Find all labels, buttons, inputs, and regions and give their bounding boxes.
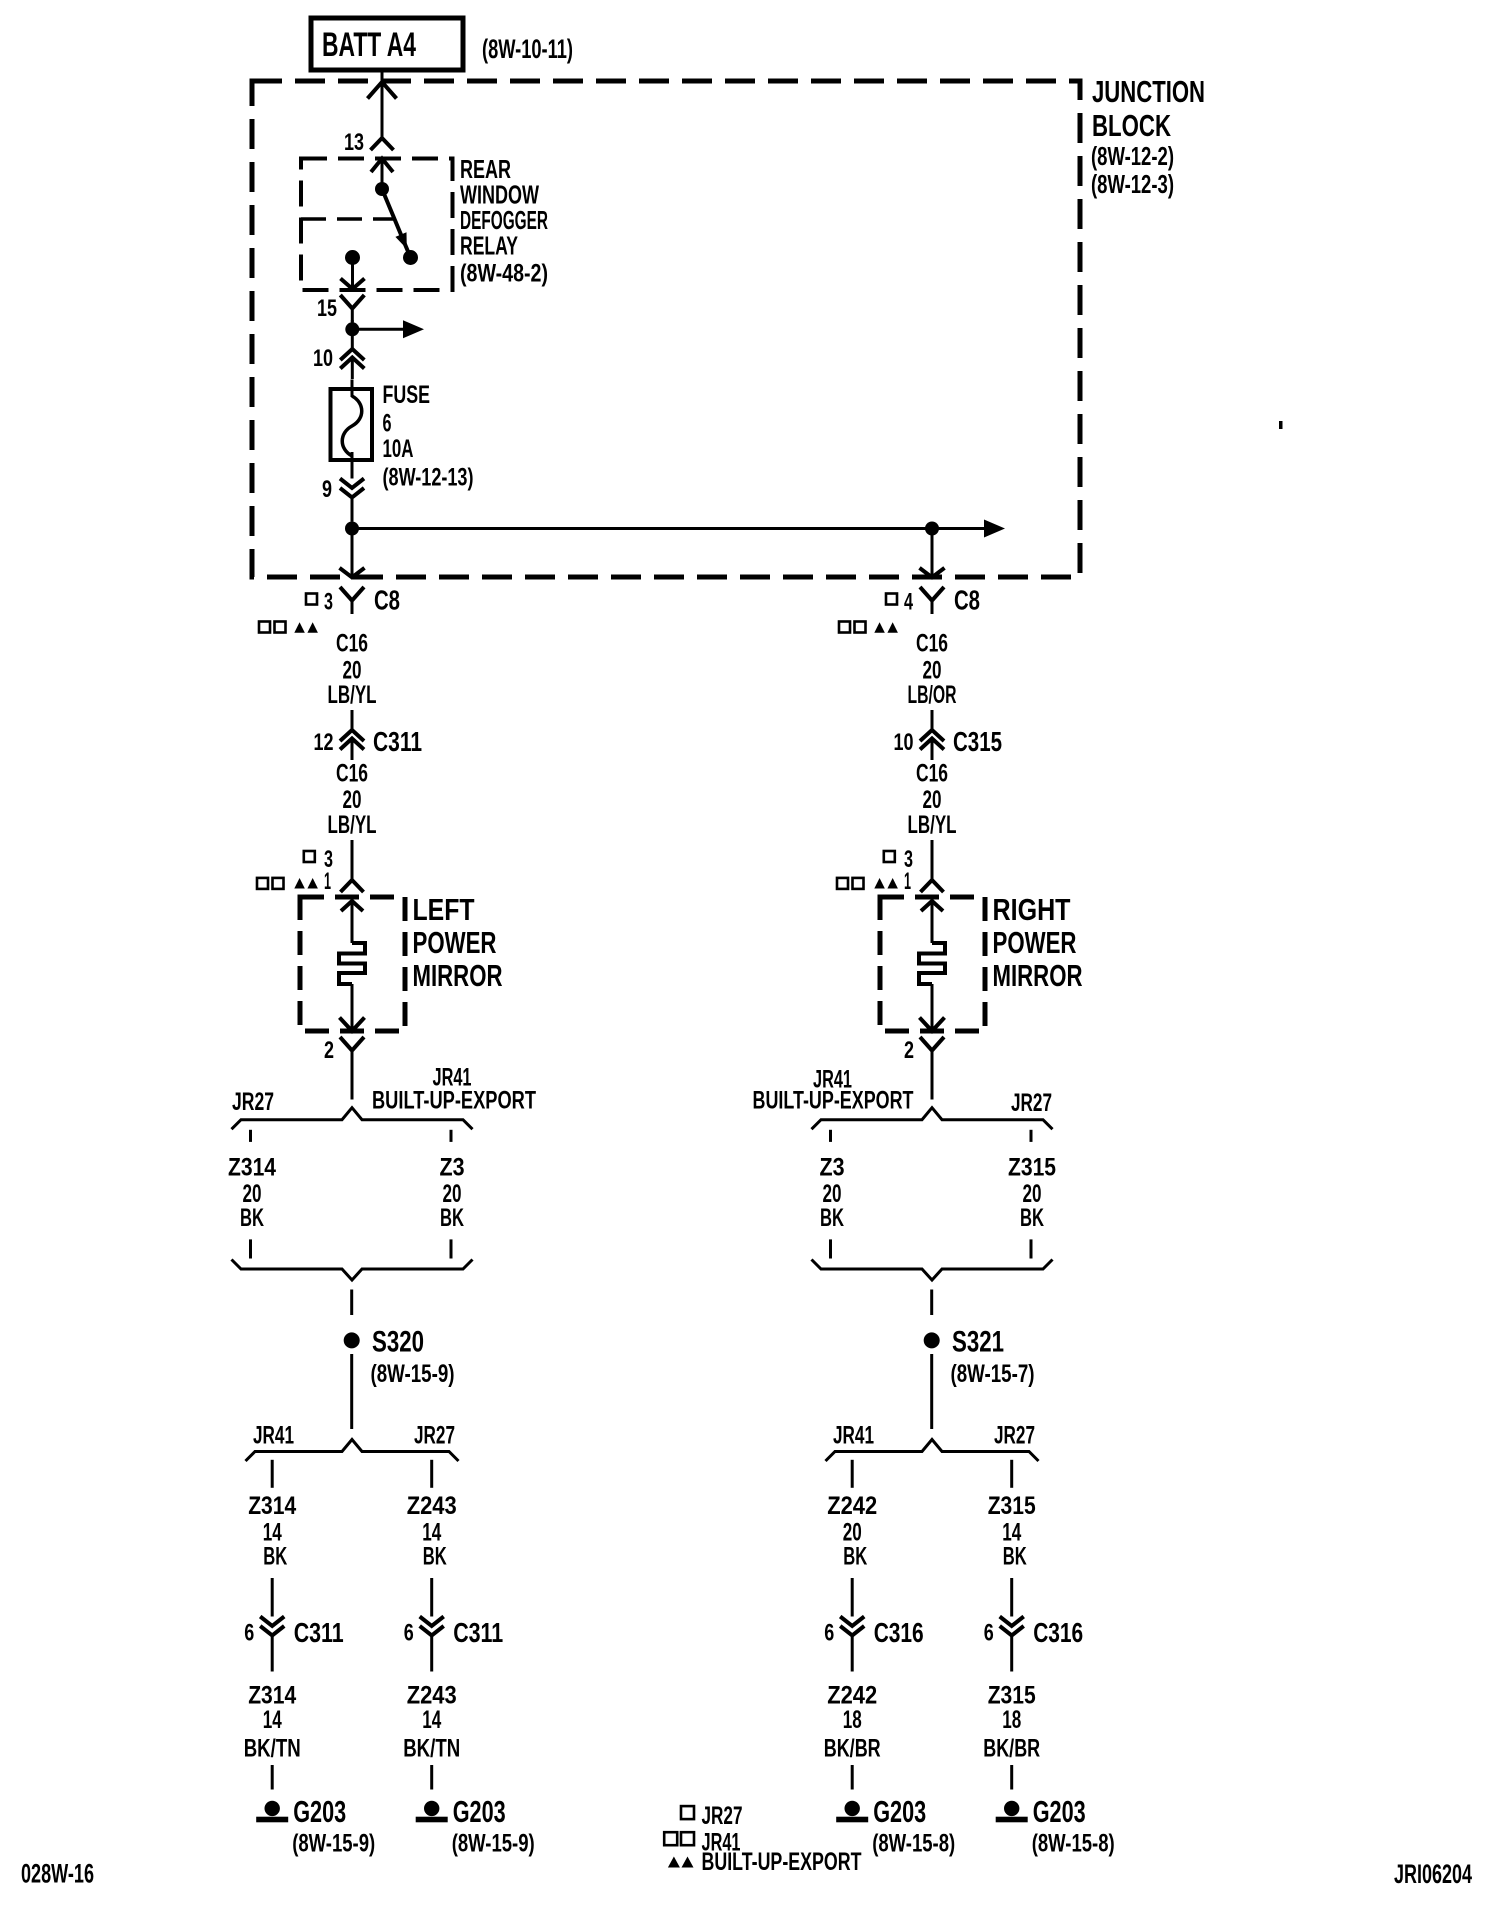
left branch wire [851, 1460, 854, 1488]
svg-text:18: 18 [843, 1706, 862, 1734]
svg-text:C311: C311 [453, 1617, 503, 1648]
junction node at bus [345, 522, 359, 536]
svg-text:JR27: JR27 [232, 1088, 274, 1116]
relay common contact [375, 182, 389, 196]
svg-text:Z315: Z315 [1008, 1154, 1056, 1182]
svg-text:(8W-15-8): (8W-15-8) [1032, 1830, 1115, 1858]
svg-text:Z3: Z3 [440, 1154, 465, 1182]
wire circuit Z3 20 BK [820, 1154, 845, 1233]
relay: rear window defogger relay (dashed box) [301, 159, 453, 291]
option markers JR41 / BUILT-UP-EXPORT [839, 622, 898, 633]
svg-text:C311: C311 [373, 726, 422, 757]
mirror pin 1 markers [837, 868, 911, 895]
svg-text:(8W-12-2): (8W-12-2) [1091, 141, 1174, 171]
svg-text:9: 9 [322, 476, 332, 503]
wire circuit Z3 20 BK [440, 1154, 465, 1233]
wire to rear defogger (arrow) [352, 320, 424, 338]
left power mirror (dashed box) [300, 897, 405, 1031]
svg-text:C316: C316 [1033, 1617, 1083, 1648]
svg-text:(8W-15-9): (8W-15-9) [371, 1360, 455, 1388]
svg-text:C316: C316 [874, 1617, 924, 1648]
bus wire to right branch [352, 520, 1005, 538]
svg-text:G203: G203 [1033, 1794, 1086, 1829]
splice S321 [924, 1326, 1035, 1389]
svg-text:JRI06204: JRI06204 [1394, 1859, 1472, 1889]
wire right drop to C8 [920, 529, 945, 578]
mirror pin 3 marker [884, 846, 913, 873]
svg-text:POWER: POWER [993, 925, 1077, 960]
svg-text:BK: BK [440, 1204, 464, 1232]
wire split bracket [812, 1108, 1053, 1130]
drawing number JRI06204 [1394, 1859, 1472, 1889]
right branch wire [1010, 1460, 1013, 1488]
svg-text:Z314: Z314 [248, 1492, 296, 1520]
connector C8 (pin 4) [920, 585, 980, 616]
svg-text:BK: BK [1020, 1204, 1044, 1232]
svg-text:4: 4 [904, 589, 913, 616]
wire circuit C16 20 LB/YL [328, 630, 377, 731]
svg-text:(8W-48-2): (8W-48-2) [460, 260, 548, 288]
svg-text:BK: BK [1003, 1543, 1027, 1571]
mirror pin 1 markers [257, 868, 331, 895]
ground G203 (left branch) [836, 1794, 955, 1858]
pin 2 [904, 1037, 944, 1064]
svg-text:2: 2 [904, 1037, 914, 1064]
relay coil-side wire and arrow [371, 159, 393, 190]
ground G203 (right branch) [996, 1794, 1115, 1858]
mirror feed wire [341, 901, 363, 943]
pin 10 [313, 345, 364, 379]
wire to ground (left branch) [271, 1765, 274, 1790]
wire circuit Z315 14 BK [988, 1492, 1036, 1617]
junction node right branch [925, 522, 939, 536]
svg-text:BUILT-UP-EXPORT: BUILT-UP-EXPORT [372, 1087, 536, 1115]
branch wire stub left lower [249, 1239, 252, 1258]
wire merge to splice [350, 1290, 353, 1316]
wire pin 15 to junction [351, 320, 354, 349]
relay switch arm [382, 189, 411, 258]
svg-text:G203: G203 [873, 1794, 926, 1829]
svg-text:18: 18 [1002, 1706, 1021, 1734]
mirror pin 3 marker [304, 846, 333, 873]
wire circuit Z314 14 BK/TN [244, 1682, 301, 1763]
svg-text:10: 10 [313, 345, 333, 372]
ground G203 (left branch) [256, 1794, 375, 1858]
svg-text:BK: BK [820, 1204, 844, 1232]
mirror motor element [919, 943, 945, 984]
wire circuit C16 20 LB/YL [908, 760, 957, 881]
left branch wire [271, 1460, 274, 1488]
reference (8W-10-11) [482, 34, 573, 64]
svg-text:(8W-15-8): (8W-15-8) [872, 1830, 955, 1858]
svg-text:BLOCK: BLOCK [1092, 108, 1171, 143]
mirror feed wire [921, 901, 943, 943]
svg-text:BK: BK [263, 1543, 287, 1571]
pin 15 [317, 295, 364, 322]
wire circuit Z243 14 BK [407, 1492, 457, 1617]
branch wire stub left [249, 1130, 252, 1142]
harness label JR27 [232, 1088, 274, 1116]
branch wire stub left [829, 1130, 832, 1142]
mirror label LEFT [413, 892, 503, 993]
svg-text:C8: C8 [374, 585, 400, 616]
svg-text:(8W-10-11): (8W-10-11) [482, 34, 573, 64]
svg-text:15: 15 [317, 295, 337, 322]
svg-text:(8W-15-7): (8W-15-7) [951, 1360, 1035, 1388]
svg-text:LB/YL: LB/YL [328, 681, 377, 709]
connector C311 pin 6 (left branch) [244, 1617, 344, 1672]
wire lower split bracket [246, 1440, 459, 1462]
connector C316 pin 6 (left branch) [824, 1617, 924, 1672]
right power mirror (dashed box) [880, 897, 985, 1031]
svg-text:JR41: JR41 [253, 1422, 294, 1450]
relay NO contact [403, 250, 418, 265]
wire to ground (right branch) [1010, 1765, 1013, 1790]
svg-text:6: 6 [383, 410, 392, 438]
splice S320 [344, 1326, 455, 1389]
mirror return wire [340, 984, 365, 1031]
harness label JR27 [1011, 1089, 1052, 1117]
svg-text:(8W-15-9): (8W-15-9) [292, 1830, 375, 1858]
svg-text:MIRROR: MIRROR [413, 958, 503, 993]
svg-text:MIRROR: MIRROR [993, 958, 1083, 993]
svg-text:LB/YL: LB/YL [328, 811, 377, 839]
svg-text:14: 14 [422, 1706, 441, 1734]
svg-text:(8W-12-13): (8W-12-13) [383, 464, 474, 492]
harness label JR27 (lower) [414, 1422, 455, 1450]
ground G203 (right branch) [416, 1794, 535, 1858]
wire circuit Z243 14 BK/TN [403, 1682, 460, 1763]
harness label JR41 BUILT-UP-EXPORT [372, 1064, 536, 1115]
svg-text:G203: G203 [293, 1794, 346, 1829]
wire pin 2 to split [351, 1062, 354, 1100]
svg-text:BK: BK [240, 1204, 264, 1232]
svg-text:C311: C311 [294, 1617, 344, 1648]
relay label REAR WINDOW DEFOGGER RELAY (8W-48-2) [460, 154, 548, 288]
harness label JR41 (lower) [253, 1422, 294, 1450]
svg-text:BK/BR: BK/BR [983, 1735, 1040, 1763]
svg-text:POWER: POWER [413, 925, 497, 960]
svg-text:BK: BK [843, 1543, 867, 1571]
svg-text:10A: 10A [383, 435, 414, 463]
svg-text:S320: S320 [372, 1326, 424, 1359]
svg-text:BK: BK [423, 1543, 447, 1571]
mirror label RIGHT [993, 892, 1083, 993]
svg-text:C315: C315 [953, 726, 1002, 757]
harness label JR27 (lower) [994, 1422, 1035, 1450]
right branch wire [430, 1460, 433, 1488]
fuse value label [383, 381, 474, 492]
wire circuit Z315 18 BK/BR [983, 1682, 1040, 1763]
stray scan mark [1279, 421, 1283, 429]
svg-text:RELAY: RELAY [460, 231, 518, 261]
svg-text:BUILT-UP-EXPORT: BUILT-UP-EXPORT [753, 1087, 914, 1115]
svg-text:C8: C8 [954, 585, 980, 616]
svg-text:10: 10 [894, 729, 914, 756]
legend marker JR41 [664, 1829, 740, 1857]
junction block (dashed boundary) [252, 81, 1080, 577]
pin 13 [344, 129, 394, 156]
svg-text:FUSE: FUSE [383, 381, 431, 409]
pin 9 [322, 460, 364, 522]
fuse 6 (10A) [331, 380, 373, 461]
svg-text:13: 13 [344, 129, 364, 156]
svg-text:6: 6 [404, 1620, 414, 1647]
svg-text:C16: C16 [916, 630, 948, 658]
svg-text:1: 1 [904, 868, 911, 895]
wire lower split bracket [826, 1440, 1039, 1462]
wire circuit Z242 20 BK [827, 1492, 877, 1617]
wire merge to splice [930, 1290, 933, 1316]
svg-text:12: 12 [314, 729, 334, 756]
wire circuit C16 20 LB/OR [908, 630, 957, 731]
wire left drop to C8 [340, 529, 365, 578]
wire merge bracket [812, 1260, 1053, 1281]
branch wire stub right lower [1030, 1239, 1033, 1258]
wire to ground (right branch) [430, 1765, 433, 1790]
wire circuit Z242 18 BK/BR [824, 1682, 881, 1763]
svg-text:LB/OR: LB/OR [908, 681, 957, 709]
svg-text:LB/YL: LB/YL [908, 811, 957, 839]
relay output contact [345, 250, 360, 265]
svg-text:C16: C16 [336, 630, 368, 658]
svg-text:2: 2 [324, 1037, 334, 1064]
svg-text:(8W-12-3): (8W-12-3) [1091, 169, 1174, 199]
wire circuit Z314 14 BK [248, 1492, 296, 1617]
connector C311 pin 6 (right branch) [404, 1617, 504, 1672]
branch wire stub left lower [829, 1239, 832, 1258]
branch wire stub right [1030, 1130, 1033, 1142]
svg-text:S321: S321 [952, 1326, 1004, 1359]
junction block label [1091, 74, 1205, 199]
svg-text:BK/TN: BK/TN [403, 1735, 460, 1763]
svg-text:Z3: Z3 [820, 1154, 845, 1182]
svg-text:C16: C16 [336, 760, 368, 788]
wire splice to lower split [350, 1354, 353, 1429]
svg-text:RIGHT: RIGHT [993, 892, 1071, 927]
svg-text:1: 1 [324, 868, 331, 895]
svg-text:C16: C16 [916, 760, 948, 788]
svg-text:G203: G203 [453, 1794, 506, 1829]
svg-text:Z314: Z314 [228, 1154, 276, 1182]
svg-text:BUILT-UP-EXPORT: BUILT-UP-EXPORT [702, 1848, 862, 1876]
svg-text:JR27: JR27 [414, 1422, 455, 1450]
svg-text:BATT A4: BATT A4 [322, 26, 416, 64]
mirror return wire [920, 984, 945, 1031]
harness label JR41 (lower) [833, 1422, 874, 1450]
branch wire stub right lower [450, 1239, 453, 1258]
wire BATT A4 to relay pin 13 [368, 70, 397, 138]
svg-text:6: 6 [984, 1620, 994, 1647]
sheet number 028W-16 [21, 1859, 94, 1889]
connector C311 pin 12 [314, 726, 423, 760]
svg-text:BK/BR: BK/BR [824, 1735, 881, 1763]
svg-text:(8W-15-9): (8W-15-9) [452, 1830, 535, 1858]
connector C316 pin 6 (right branch) [984, 1617, 1083, 1672]
svg-text:JR27: JR27 [702, 1802, 743, 1830]
branch wire stub right [450, 1130, 453, 1142]
svg-text:14: 14 [263, 1706, 282, 1734]
wire to ground (left branch) [851, 1765, 854, 1790]
harness label JR41 BUILT-UP-EXPORT [753, 1066, 914, 1115]
svg-text:JUNCTION: JUNCTION [1092, 74, 1205, 109]
svg-text:6: 6 [244, 1620, 254, 1647]
wire circuit Z315 20 BK [1008, 1154, 1056, 1233]
pin 2 [324, 1037, 364, 1064]
svg-text:Z242: Z242 [827, 1492, 877, 1520]
svg-text:JR41: JR41 [833, 1422, 874, 1450]
wire merge bracket [232, 1260, 473, 1281]
mirror motor element [339, 943, 365, 984]
mirror pin 1 terminal [341, 880, 364, 892]
wire pin 2 to split [931, 1062, 934, 1100]
wire circuit C16 20 LB/YL [328, 760, 377, 881]
svg-text:JR27: JR27 [994, 1422, 1035, 1450]
wire circuit Z314 20 BK [228, 1154, 276, 1233]
wire splice to lower split [930, 1354, 933, 1429]
svg-text:Z243: Z243 [407, 1492, 457, 1520]
svg-text:BK/TN: BK/TN [244, 1735, 301, 1763]
svg-text:028W-16: 028W-16 [21, 1859, 94, 1889]
relay output wire [341, 258, 365, 290]
option markers JR41 / BUILT-UP-EXPORT [259, 622, 318, 633]
svg-text:Z315: Z315 [988, 1492, 1036, 1520]
svg-text:6: 6 [824, 1620, 834, 1647]
connector C8 pin 3 marker [306, 589, 333, 616]
svg-text:3: 3 [324, 589, 333, 616]
junction node (defogger feed) [345, 322, 359, 336]
connector C8 (pin 3) [340, 585, 400, 616]
svg-text:JR27: JR27 [1011, 1089, 1052, 1117]
connector C8 pin 4 marker [886, 589, 913, 616]
battery feed node BATT A4 [311, 18, 463, 70]
svg-text:LEFT: LEFT [413, 892, 475, 927]
mirror pin 1 terminal [921, 880, 944, 892]
connector C315 pin 10 [894, 726, 1003, 760]
legend marker JR27 [681, 1802, 743, 1830]
wire split bracket [232, 1108, 473, 1130]
legend marker BUILT-UP-EXPORT [668, 1848, 862, 1876]
